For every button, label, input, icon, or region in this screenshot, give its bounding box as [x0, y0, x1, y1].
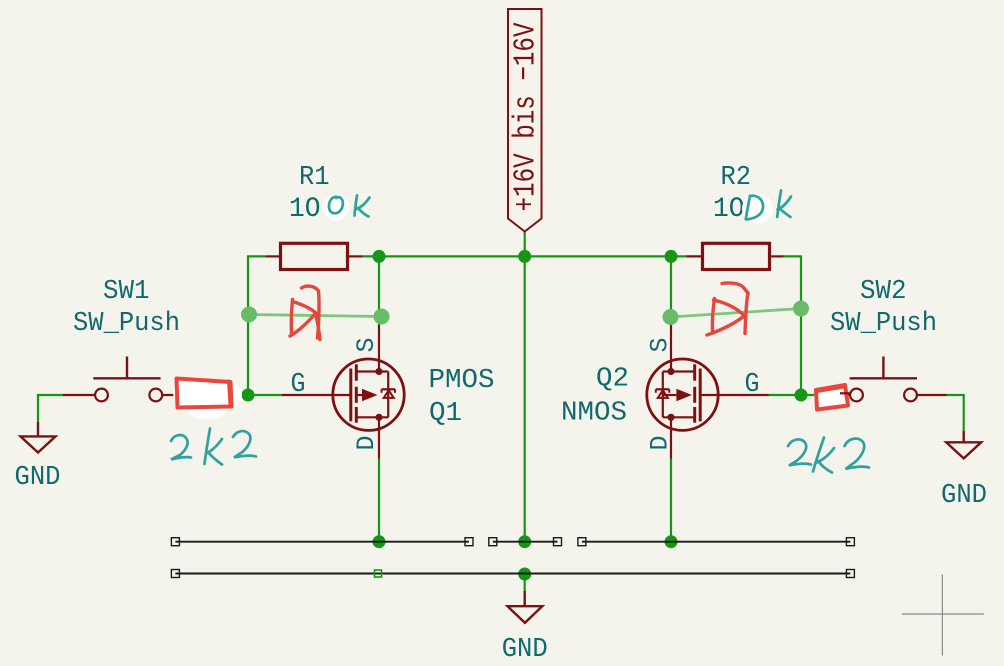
svg-text:G: G — [745, 370, 760, 400]
power flag +16V bis -16V — [508, 9, 544, 232]
svg-text:R2: R2 — [721, 163, 752, 193]
wire SW1 to GND — [38, 395, 63, 422]
svg-text:S: S — [646, 338, 675, 353]
junction node Q2 source — [665, 250, 678, 263]
svg-text:1O: 1O — [713, 194, 745, 225]
white blob R1 value — [323, 195, 349, 221]
handwritten gate stub right — [840, 392, 850, 394]
switch SW1 — [63, 357, 192, 402]
svg-text:SW_Push: SW_Push — [73, 309, 180, 339]
svg-text:D: D — [352, 436, 381, 451]
svg-text:Q1: Q1 — [429, 399, 462, 429]
wire R2 right loop — [784, 256, 802, 395]
junction node Q1 drain bus — [373, 535, 386, 548]
junction node power bus — [518, 535, 531, 548]
handwritten 0 R1 value — [329, 197, 343, 213]
junction node power — [518, 250, 531, 263]
handwritten diode scribble right — [707, 283, 748, 335]
svg-text:NMOS: NMOS — [561, 399, 627, 429]
junction node Q2 drain bus — [665, 535, 678, 548]
svg-text:+16V bis −16V: +16V bis −16V — [509, 22, 544, 211]
transistor Q1 PMOS — [282, 325, 404, 459]
svg-text:1O: 1O — [289, 194, 321, 225]
bus line lower — [175, 573, 850, 575]
white blob under right 2k2 resistor — [814, 386, 846, 408]
wire Q2 source — [670, 256, 672, 325]
svg-text:D: D — [646, 436, 675, 451]
svg-text:GND: GND — [502, 635, 548, 665]
wire gate Q1 — [192, 394, 282, 396]
wire Q2 drain — [670, 459, 672, 542]
svg-text:PMOS: PMOS — [429, 366, 495, 396]
svg-text:GND: GND — [941, 481, 987, 511]
bus line upper segment 3 — [582, 541, 851, 543]
wire Q1 drain — [378, 459, 380, 542]
transistor Q2 NMOS — [647, 325, 769, 459]
wire Q1 source — [378, 256, 380, 325]
endpoint square green unconnected — [375, 570, 382, 577]
resistor R1 — [266, 243, 363, 269]
wire bottom GND stub — [524, 574, 526, 591]
svg-text:Q2: Q2 — [596, 365, 629, 395]
junction node bottom GND — [518, 568, 531, 581]
white blob R2 value — [742, 194, 773, 224]
wire R1 left loop — [248, 256, 266, 395]
handwritten resistor rect right inner stroke — [817, 387, 844, 392]
annotation light green wire left — [241, 307, 390, 325]
svg-text:G: G — [291, 370, 306, 400]
wire SW2 to GND — [947, 395, 964, 431]
svg-text:SW1: SW1 — [103, 277, 150, 307]
white blob under left 2k2 resistor — [173, 379, 242, 419]
wire center vertical to bus — [524, 256, 526, 541]
svg-text:S: S — [352, 338, 381, 353]
svg-text:R1: R1 — [299, 163, 330, 193]
wire gate Q2 — [769, 394, 819, 396]
junction node gate Q1 — [242, 389, 255, 402]
handwritten 2k2 right — [788, 438, 869, 473]
handwritten resistor rect right — [816, 385, 848, 410]
svg-text:SW2: SW2 — [860, 277, 907, 307]
ground right — [946, 431, 981, 459]
handwritten resistor rect left — [177, 379, 232, 408]
handwritten k R1 value — [355, 196, 370, 217]
handwritten k R2 value — [777, 191, 791, 218]
junction node Q1 source — [373, 250, 386, 263]
endpoint squares black — [171, 538, 854, 578]
resistor R2 — [686, 243, 783, 269]
handwritten resistor rect left double stroke — [229, 381, 231, 405]
bus line upper segment 2 — [493, 541, 558, 543]
switch SW2 — [818, 357, 947, 402]
ground bottom — [508, 591, 543, 623]
crosshair — [902, 575, 984, 656]
svg-text:SW_Push: SW_Push — [830, 309, 937, 339]
wire main horizontal — [363, 255, 687, 257]
bus line upper segment 1 — [175, 541, 469, 543]
handwritten diode scribble left — [290, 286, 320, 339]
annotation light green wire right — [663, 301, 810, 326]
handwritten 2k2 left — [171, 429, 256, 465]
wire power drop — [524, 232, 526, 257]
svg-text:GND: GND — [15, 463, 61, 493]
junction node gate Q2 — [795, 389, 808, 402]
ground left — [21, 422, 56, 453]
handwritten 0 R2 value — [746, 196, 763, 220]
